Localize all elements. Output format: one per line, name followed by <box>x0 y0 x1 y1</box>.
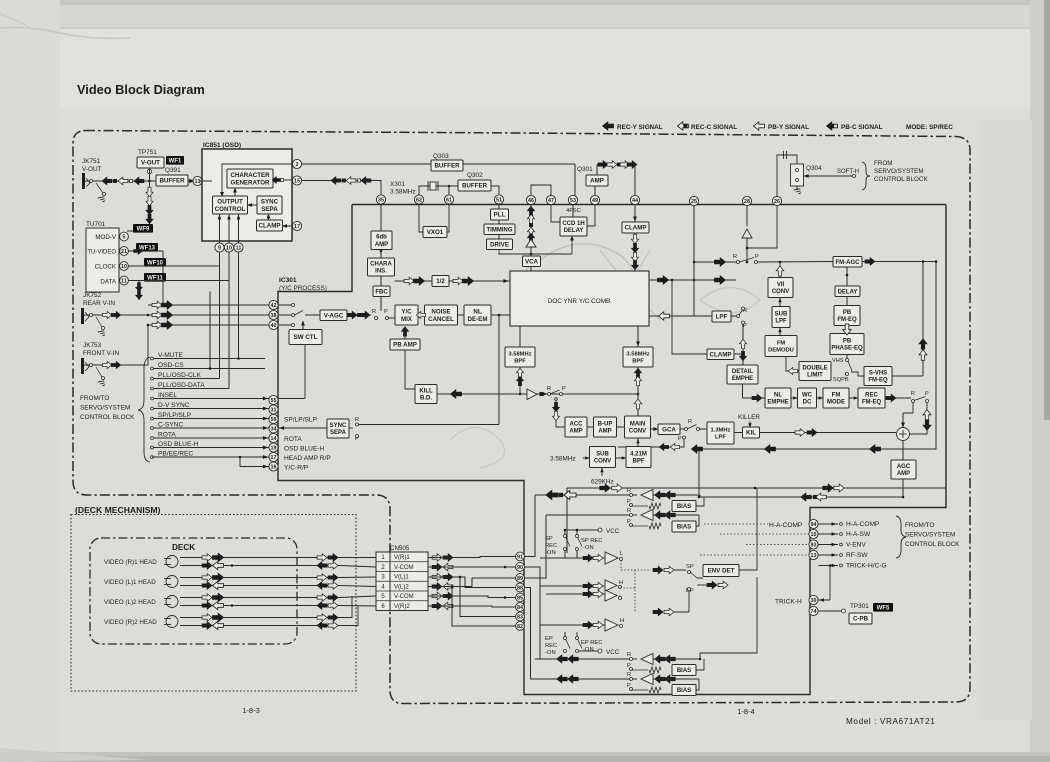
svg-text:BIAS: BIAS <box>677 504 691 510</box>
svg-text:MAIN: MAIN <box>630 421 645 427</box>
arrows below mid BPF <box>637 367 639 394</box>
net INSEL <box>151 397 154 400</box>
net H-A-SW <box>819 533 839 535</box>
wire switch to FM-AGC <box>758 261 834 264</box>
arrow cluster on pin15 wire <box>331 177 341 185</box>
wire cn505 row 1 <box>428 557 516 558</box>
svg-text:Q391: Q391 <box>165 167 181 174</box>
pin 74 <box>809 606 818 615</box>
svg-text:DECK: DECK <box>172 543 195 552</box>
wire into adder from top <box>902 413 904 428</box>
deck mechanism dotted border <box>71 515 356 692</box>
svg-text:OSD BLUE-H: OSD BLUE-H <box>284 446 325 453</box>
dotted link L <box>620 560 622 570</box>
svg-text:WF5: WF5 <box>877 606 890 612</box>
wire FBC down <box>380 297 382 312</box>
wire DATA bus <box>129 280 230 282</box>
svg-text:CONV: CONV <box>772 289 789 295</box>
wire SW CTL up <box>302 321 304 330</box>
record amp L row <box>540 557 605 559</box>
svg-text:S-VHS: S-VHS <box>869 370 887 376</box>
ground <box>98 381 105 382</box>
wires Q301 <box>594 186 596 196</box>
svg-text:(Y/C PROCESS): (Y/C PROCESS) <box>279 285 327 292</box>
pin 47 <box>546 195 555 204</box>
svg-text:CONTROL BLOCK: CONTROL BLOCK <box>80 414 135 421</box>
svg-text:SQPB: SQPB <box>833 377 849 383</box>
svg-text:MIX: MIX <box>401 316 413 323</box>
wire pin2 to Q303 and pin53 <box>302 163 576 165</box>
switch after LPF <box>731 315 736 317</box>
legend REC-C SIGNAL <box>678 122 689 130</box>
svg-text:V-COM: V-COM <box>394 565 414 571</box>
svg-text:V(R)2: V(R)2 <box>394 604 410 610</box>
legend PB-C SIGNAL <box>827 122 838 130</box>
wire double limit to fm demodu <box>786 357 799 372</box>
svg-text:10: 10 <box>121 264 127 270</box>
svg-text:NOISE: NOISE <box>431 308 450 315</box>
svg-text:WC: WC <box>802 392 813 398</box>
wire r branch down <box>912 403 914 414</box>
wire sp rec to amp row <box>564 551 566 559</box>
wire fm-agc right <box>862 261 936 263</box>
brace and FROM SERVO/SYSTEM CONTROL BLOCK <box>862 162 870 190</box>
wire y497 <box>699 496 903 498</box>
pin 13 servo <box>809 550 818 559</box>
svg-text:MODE: MODE <box>827 400 845 406</box>
svg-text:VIDEO (R)2 HEAD: VIDEO (R)2 HEAD <box>104 619 157 626</box>
block CLAMP osd <box>257 220 283 231</box>
svg-text:74: 74 <box>811 609 817 615</box>
svg-text:REC: REC <box>545 543 557 549</box>
block DETAIL EMPHE <box>727 365 758 384</box>
block LPF <box>712 311 731 322</box>
svg-text:REC: REC <box>545 643 557 649</box>
svg-text:IC301: IC301 <box>279 277 297 284</box>
wire TU-VIDEO to input mux <box>129 251 164 305</box>
VCC node 2 <box>598 649 602 653</box>
svg-text:FM: FM <box>832 392 841 398</box>
svg-text:Model : VRA671AT21: Model : VRA671AT21 <box>846 717 935 726</box>
svg-text:R: R <box>372 309 376 315</box>
svg-text:Q304: Q304 <box>806 165 822 172</box>
pin 19 <box>269 443 278 452</box>
svg-text:TIMMING: TIMMING <box>487 227 513 233</box>
wire y449 left end down <box>698 449 700 497</box>
svg-text:RF-SW: RF-SW <box>846 552 868 559</box>
net OSD-CS <box>151 367 154 370</box>
pin 89 <box>516 574 525 583</box>
svg-text:49: 49 <box>592 198 598 204</box>
svg-text:1.3MHz: 1.3MHz <box>711 427 731 433</box>
svg-text:CLAMP: CLAMP <box>625 225 647 232</box>
legend PB-Y SIGNAL <box>754 122 765 130</box>
wire JK753 input <box>96 325 148 365</box>
svg-text:SYNC: SYNC <box>330 423 347 429</box>
svg-text:FM-EQ: FM-EQ <box>868 378 888 384</box>
svg-text:47: 47 <box>548 198 554 204</box>
wire to 1.3MHz LPF <box>700 428 708 430</box>
svg-text:38: 38 <box>271 313 277 319</box>
svg-text:11: 11 <box>236 246 242 252</box>
block SUB LPF <box>772 307 790 328</box>
block BIAS 2 <box>672 521 696 532</box>
svg-text:EP: EP <box>545 636 553 642</box>
wire noise cancel to yc mix <box>418 314 425 316</box>
wire env det right <box>739 488 757 570</box>
svg-text:V-OUT: V-OUT <box>82 166 102 173</box>
video head <box>166 556 178 568</box>
wire adder down to AGC AMP <box>902 441 904 461</box>
block VII CONV <box>768 278 793 298</box>
svg-text:LPF: LPF <box>715 435 726 441</box>
svg-text:46: 46 <box>528 198 534 204</box>
svg-text:88: 88 <box>517 586 523 592</box>
svg-text:SP/LP/SLP: SP/LP/SLP <box>158 412 192 419</box>
pin 16 <box>269 462 278 471</box>
wire cn505 row 3 <box>428 577 516 588</box>
svg-text:DRIVE: DRIVE <box>490 241 509 248</box>
svg-text:FM-EQ: FM-EQ <box>862 400 882 406</box>
svg-text:VIDEO (L)1 HEAD: VIDEO (L)1 HEAD <box>104 579 156 586</box>
summing junction <box>897 428 910 441</box>
pin 35 <box>376 195 385 204</box>
svg-text:-ON: -ON <box>583 545 594 551</box>
svg-text:55: 55 <box>271 398 277 404</box>
svg-text:SYNC: SYNC <box>261 198 279 205</box>
wire rec fm-eq to switch <box>885 397 911 399</box>
pin 31 <box>269 405 278 414</box>
net TRICK-H/C-G <box>819 565 839 567</box>
diode arrows ep <box>653 608 663 616</box>
switch before V-AGC <box>278 304 291 306</box>
svg-text:FRONT V-IN: FRONT V-IN <box>83 350 119 357</box>
wire 6db to chara ins <box>380 250 382 259</box>
svg-text:SP REC: SP REC <box>581 538 602 544</box>
svg-text:NL: NL <box>473 308 481 315</box>
block 4.21M BPF <box>626 447 651 468</box>
svg-text:-ON: -ON <box>545 550 556 556</box>
svg-text:VIDEO (R)1 HEAD: VIDEO (R)1 HEAD <box>104 559 157 566</box>
svg-text:15: 15 <box>294 179 300 185</box>
pin 49 <box>590 195 599 204</box>
svg-text:EMPHE: EMPHE <box>732 376 753 382</box>
wire pin17 to clamp <box>283 225 293 227</box>
svg-text:CONTROL BLOCK: CONTROL BLOCK <box>905 541 960 548</box>
wire head amp R/P <box>152 456 240 458</box>
svg-text:JK751: JK751 <box>82 158 101 165</box>
svg-text:REC-C SIGNAL: REC-C SIGNAL <box>691 124 737 131</box>
block DOC YNR Y/C COMB <box>510 271 649 326</box>
svg-text:SEPA: SEPA <box>330 430 347 436</box>
buffer triangle above VCA <box>526 239 536 247</box>
svg-text:DE-EM: DE-EM <box>468 316 488 323</box>
wire PB AMP feed <box>405 350 415 389</box>
wire y488 <box>567 487 946 489</box>
block ENV DET <box>703 565 739 577</box>
svg-text:LPF: LPF <box>716 314 728 321</box>
svg-text:59: 59 <box>271 417 277 423</box>
junction dots deck <box>231 564 234 567</box>
svg-text:H-A-COMP: H-A-COMP <box>769 522 803 529</box>
svg-text:ROTA: ROTA <box>158 432 176 439</box>
svg-text:TU701: TU701 <box>86 221 106 228</box>
svg-text:SOFT-H: SOFT-H <box>837 169 859 175</box>
arrows below left BPF <box>519 367 521 394</box>
record amp HL rows <box>540 585 605 587</box>
block BIAS 4 <box>672 685 696 696</box>
svg-text:82: 82 <box>517 624 523 630</box>
block NL DE-EM <box>464 305 491 325</box>
arrow cluster on JK751 line <box>102 177 112 185</box>
block REC FM-EQ <box>858 388 885 408</box>
wires VXO1 <box>419 205 423 232</box>
svg-text:LPF: LPF <box>775 319 787 325</box>
wire JK752 input <box>96 314 148 316</box>
svg-text:CLAMP: CLAMP <box>710 351 732 358</box>
wire pin25 down to LPF <box>693 206 695 316</box>
block DELAY <box>835 286 860 297</box>
wire jog rows 7 8 <box>340 596 352 618</box>
wire to Q302 <box>449 185 458 187</box>
wire char-gen to output control <box>234 190 236 196</box>
svg-text:PB: PB <box>843 310 852 316</box>
svg-text:D-V SYNC: D-V SYNC <box>158 402 190 409</box>
net V-MUTE <box>151 357 154 360</box>
wire to S-VHS FM-EQ <box>851 372 864 376</box>
wire 1/2 to comb <box>449 280 510 282</box>
svg-text:DOC YNR Y/C COMB: DOC YNR Y/C COMB <box>548 298 611 305</box>
svg-text:61: 61 <box>446 198 452 204</box>
block 6db AMP <box>371 231 392 250</box>
net ROTA <box>151 437 154 440</box>
arrow cluster top right of Q301 <box>597 164 635 166</box>
net D-V SYNC <box>151 407 154 410</box>
svg-text:TP751: TP751 <box>138 149 157 156</box>
svg-text:DELAY: DELAY <box>838 289 858 295</box>
switch R P pb-y <box>737 261 740 264</box>
wire main conv up <box>637 394 639 416</box>
arrow stack clamp to comb <box>634 233 636 271</box>
wire head signal <box>180 565 340 567</box>
svg-text:P: P <box>925 391 929 397</box>
block SW CTL <box>289 330 322 345</box>
wire clamp to sync sepa <box>268 216 270 220</box>
wires to pins 19 17 16 <box>152 447 269 449</box>
pin 88 <box>516 583 525 592</box>
arrow clusters head side <box>202 554 212 562</box>
svg-text:V-MUTE: V-MUTE <box>158 352 184 359</box>
svg-text:FROM: FROM <box>874 160 893 167</box>
block DRIVE <box>487 239 513 250</box>
dotted signal wires <box>704 523 768 525</box>
wire TP751 to line <box>147 169 151 173</box>
svg-text:KILL: KILL <box>419 388 433 394</box>
wire Q302 to pin 51 <box>491 186 499 195</box>
block 3.58MHz BPF left <box>505 347 535 367</box>
svg-text:R: R <box>627 672 631 678</box>
block FM-AGC <box>833 257 862 268</box>
badge WF10 <box>144 258 166 267</box>
svg-text:VHS: VHS <box>832 358 844 364</box>
arrow stack pin46 to VCA <box>530 205 532 239</box>
svg-text:H: H <box>619 580 623 586</box>
pin 82 <box>516 622 525 631</box>
resistor to BIAS1 <box>631 505 648 507</box>
input mux arrow stacks <box>148 304 269 306</box>
wire head signal <box>180 557 340 559</box>
svg-text:MOD-V: MOD-V <box>95 234 116 241</box>
svg-text:WF1: WF1 <box>169 159 182 165</box>
svg-text:C-SYNC: C-SYNC <box>158 422 184 429</box>
block CHARA INS <box>368 258 395 276</box>
svg-text:1-8-3: 1-8-3 <box>242 706 260 715</box>
svg-text:R: R <box>355 417 359 423</box>
pin 26 <box>772 196 781 205</box>
wire cn505 row 2 <box>428 566 516 568</box>
wire JK751 to BUFFER <box>96 180 202 182</box>
svg-text:CCD 1H: CCD 1H <box>562 221 584 227</box>
wire pin13 into IC851 <box>200 180 212 182</box>
svg-text:AMP: AMP <box>598 429 611 435</box>
block PLL <box>491 209 509 220</box>
svg-text:PLL/OSD-DATA: PLL/OSD-DATA <box>158 382 205 389</box>
main solid box contour <box>352 204 946 206</box>
svg-text:SUB: SUB <box>775 311 788 317</box>
svg-text:SERVO/SYSTEM: SERVO/SYSTEM <box>80 405 130 412</box>
svg-text:10: 10 <box>226 246 232 252</box>
riser x567 <box>566 488 568 553</box>
wire fm-agc down delay <box>846 267 848 286</box>
svg-text:V-AGC: V-AGC <box>324 312 344 319</box>
wire 4.21 BPF up to MAIN CONV <box>637 438 639 447</box>
net V-ENV <box>819 544 839 546</box>
svg-text:-ON: -ON <box>545 650 556 656</box>
block GCA <box>651 428 659 430</box>
svg-text:P: P <box>755 254 759 260</box>
pin 40 <box>269 320 278 329</box>
svg-text:1-8-4: 1-8-4 <box>737 707 755 716</box>
wire s-vhs right up <box>892 375 923 377</box>
buffer triangle on y394 <box>527 389 537 400</box>
block FM MODE <box>823 388 849 408</box>
block PB PHASE-EQ <box>830 334 864 355</box>
svg-text:IC851 (OSD): IC851 (OSD) <box>203 142 241 149</box>
pin 15 <box>292 176 301 185</box>
svg-text:VXO1: VXO1 <box>427 229 444 236</box>
pin 85 <box>516 593 525 602</box>
svg-text:BUFFER: BUFFER <box>159 178 185 185</box>
svg-text:R: R <box>627 508 631 514</box>
svg-text:DATA: DATA <box>100 279 116 286</box>
record amp H row <box>540 624 605 626</box>
svg-text:EMPHE: EMPHE <box>767 400 788 406</box>
wire comb bottom mid BPF <box>637 326 639 347</box>
deck dash-dot box <box>90 538 297 644</box>
net PB/EE/REC <box>151 456 154 459</box>
svg-text:FROM/TO: FROM/TO <box>905 522 934 529</box>
wire cn505 row 5 <box>428 596 516 598</box>
svg-text:TRICK-H: TRICK-H <box>775 599 802 606</box>
block KIL <box>743 427 760 438</box>
svg-text:53: 53 <box>570 198 576 204</box>
block NL EMPHE <box>765 388 791 408</box>
svg-text:DC: DC <box>803 400 812 406</box>
svg-text:BIAS: BIAS <box>677 525 691 531</box>
svg-text:11: 11 <box>121 279 127 285</box>
svg-text:FM-AGC: FM-AGC <box>836 260 861 266</box>
block TIMMING <box>484 224 515 235</box>
svg-text:-ON: -ON <box>583 647 594 653</box>
wire risers to OSD pins <box>219 266 221 379</box>
svg-text:NL: NL <box>774 392 782 398</box>
svg-text:CHARA: CHARA <box>370 261 392 267</box>
wire chara ins to fbc <box>380 276 382 286</box>
svg-text:31: 31 <box>271 408 277 414</box>
wire p branch down to adder <box>910 403 927 435</box>
half line y281 <box>395 280 433 282</box>
block OUTPUT CONTROL <box>213 196 248 214</box>
svg-text:R: R <box>547 386 551 392</box>
pin 53 <box>568 195 577 204</box>
block VCA <box>523 256 541 267</box>
pin 83 <box>516 612 525 621</box>
svg-text:30: 30 <box>811 598 817 604</box>
wire 44 to clamp <box>634 206 636 223</box>
svg-text:CHARACTER: CHARACTER <box>230 172 270 179</box>
block PB FM-EQ <box>834 306 860 326</box>
svg-text:LIMIT: LIMIT <box>807 373 823 379</box>
svg-text:BPF: BPF <box>514 359 526 365</box>
video head <box>166 576 178 588</box>
block KILL B.D. <box>415 385 437 404</box>
block S-VHS FM-EQ <box>864 367 892 386</box>
arrows after V-AGC <box>347 314 371 316</box>
block 3.58MHz BPF mid <box>623 347 653 367</box>
svg-text:V-ENV: V-ENV <box>846 542 866 549</box>
svg-text:4.21M: 4.21M <box>630 451 647 457</box>
svg-text:CN505: CN505 <box>390 545 410 552</box>
pin 44 <box>630 195 639 204</box>
svg-text:CLAMP: CLAMP <box>259 223 281 230</box>
pin 17 <box>269 452 278 461</box>
pin 13 <box>193 176 202 185</box>
ground <box>794 189 801 190</box>
svg-text:19: 19 <box>271 446 277 452</box>
wire detail emphe down <box>742 384 744 398</box>
wire cn505 row 6 <box>428 606 516 607</box>
wire DRIVE to VCA node <box>499 250 572 255</box>
riser to FM-AGC line <box>922 262 924 377</box>
wire comb bottom left BPF <box>519 326 521 347</box>
svg-text:REAR V-IN: REAR V-IN <box>83 300 115 307</box>
pin 28 <box>742 196 751 205</box>
badge WF5 <box>873 603 893 612</box>
svg-text:26: 26 <box>774 199 780 205</box>
fold marks top-left <box>0 28 130 39</box>
svg-text:B-UP: B-UP <box>598 421 613 427</box>
svg-text:VIDEO (L)2 HEAD: VIDEO (L)2 HEAD <box>104 599 156 606</box>
block CLAMP 44 <box>622 222 649 233</box>
svg-text:X301: X301 <box>390 181 405 188</box>
svg-text:INS.: INS. <box>375 269 387 275</box>
pin 55 <box>269 395 278 404</box>
pin 34 <box>269 424 278 433</box>
pencil smudges <box>524 244 632 313</box>
badge WF1 <box>166 156 184 165</box>
svg-text:62: 62 <box>416 198 422 204</box>
block V-AGC <box>320 310 347 321</box>
